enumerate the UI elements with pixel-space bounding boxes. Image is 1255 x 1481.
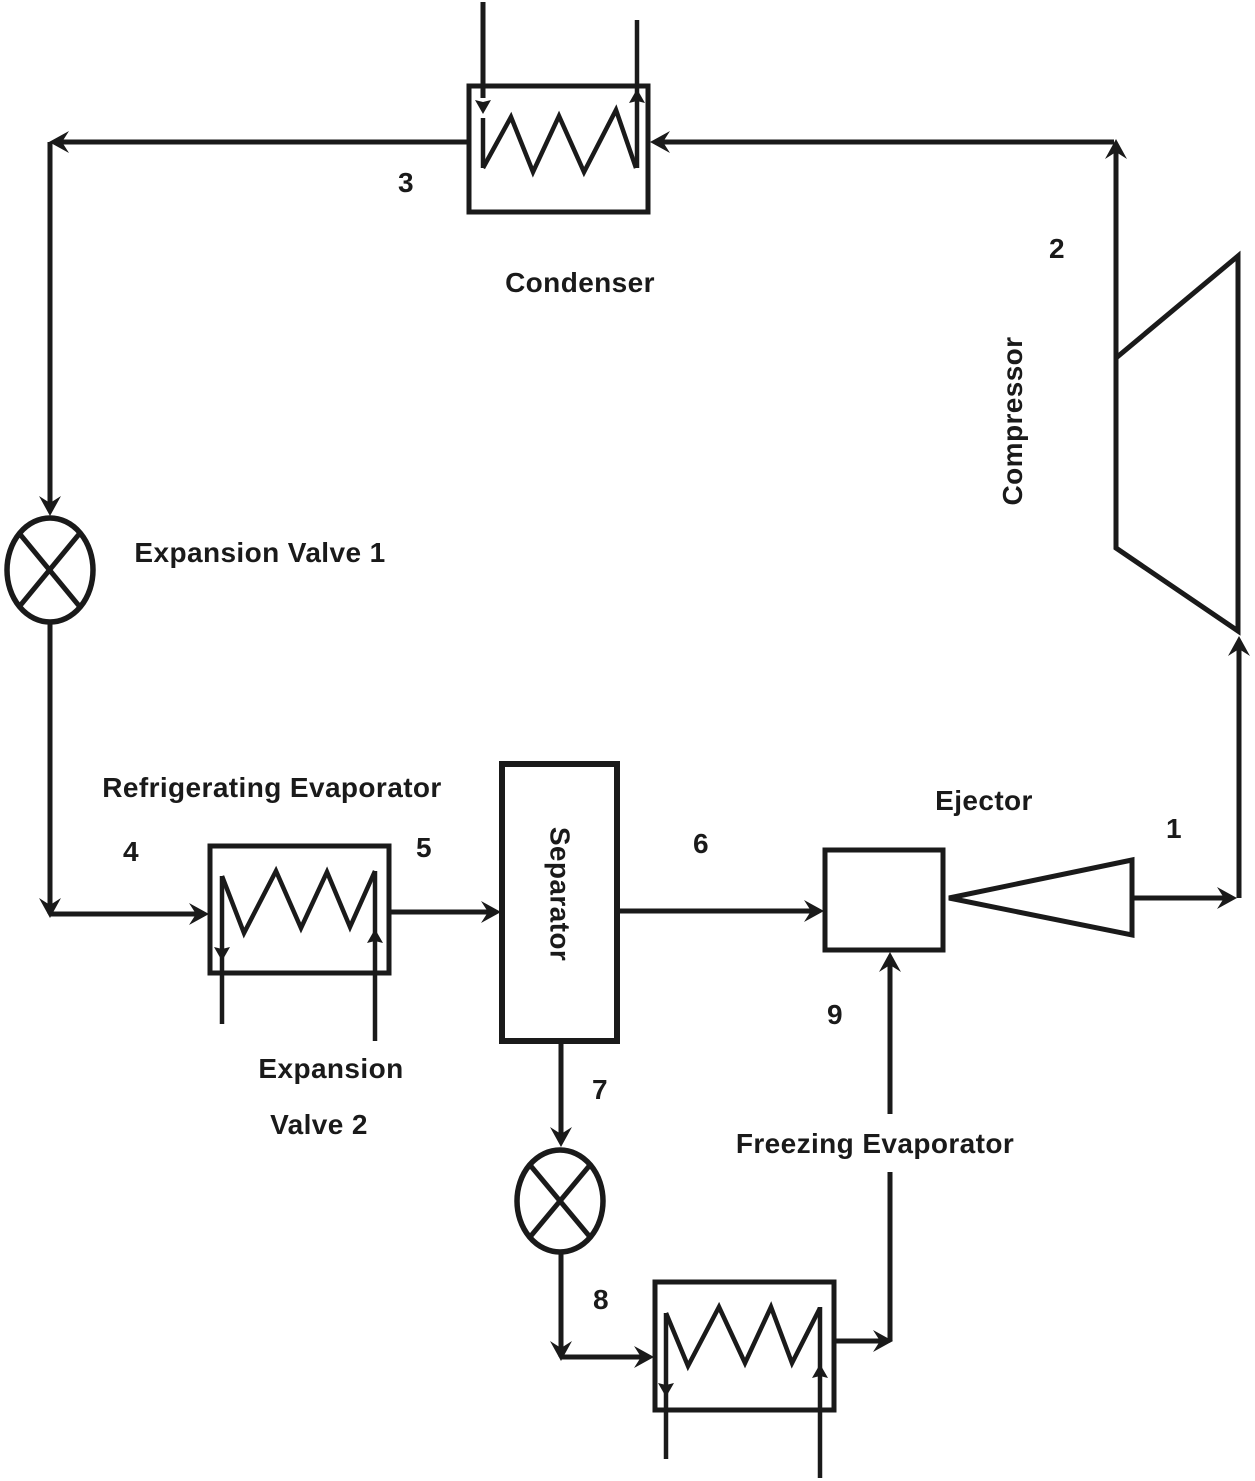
svg-text:Ejector: Ejector: [935, 785, 1033, 816]
refrigerating evaporator box: [210, 846, 389, 973]
wire rail up to ejector (lower segment): [888, 1172, 893, 1341]
svg-text:2: 2: [1049, 233, 1065, 264]
freezing evaporator coil: [666, 1307, 820, 1366]
wire nozzle to right rail: [1132, 896, 1230, 901]
svg-text:Separator: Separator: [545, 827, 576, 961]
wire freezing evaporator out: [834, 1339, 882, 1344]
svg-text:Valve 2: Valve 2: [270, 1109, 368, 1140]
svg-text:Compressor: Compressor: [997, 337, 1028, 506]
svg-text:4: 4: [123, 836, 139, 867]
condenser right tube: [635, 20, 640, 168]
expansion valve 1: [7, 518, 93, 622]
ejector box: [825, 850, 943, 950]
wire evaporator to separator: [389, 910, 494, 915]
svg-text:7: 7: [592, 1074, 608, 1105]
svg-text:1: 1: [1166, 813, 1182, 844]
svg-text:6: 6: [693, 828, 709, 859]
svg-text:Expansion: Expansion: [258, 1053, 403, 1084]
svg-text:5: 5: [416, 832, 432, 863]
wire top-right horizontal to condenser: [656, 140, 1114, 145]
wire to refrigerating evaporator: [50, 912, 202, 917]
svg-text:3: 3: [398, 167, 414, 198]
wire valve 2 down: [559, 1252, 564, 1357]
wire compressor discharge up: [1114, 145, 1119, 358]
refrigerating evaporator left tube: [220, 876, 225, 1024]
svg-text:Refrigerating Evaporator: Refrigerating Evaporator: [102, 772, 441, 803]
separator box: [502, 764, 617, 1041]
expansion valve 2: [517, 1150, 603, 1252]
svg-text:Freezing Evaporator: Freezing Evaporator: [736, 1128, 1014, 1159]
svg-text:Expansion Valve 1: Expansion Valve 1: [134, 537, 385, 568]
wire separator to ejector: [617, 909, 817, 914]
wire top-left horizontal (condenser to expansion valve 1 corner): [55, 140, 469, 145]
compressor trapezoid: [1116, 256, 1238, 631]
node corner arrow top-left: [49, 131, 69, 153]
wire separator bottom: [559, 1041, 564, 1140]
wire to freezing evaporator: [561, 1355, 647, 1360]
freezing evaporator left tube: [664, 1313, 669, 1459]
freezing evaporator box: [655, 1282, 834, 1410]
svg-text:9: 9: [827, 999, 843, 1030]
wire right rail up to compressor: [1237, 641, 1242, 898]
wire left vertical lower: [48, 622, 53, 914]
refrigerating evaporator right tube: [373, 871, 378, 1041]
refrigerating evaporator coil: [222, 871, 375, 933]
condenser box: [469, 86, 648, 212]
ejector nozzle triangle: [949, 860, 1132, 935]
wire rail up to ejector (upper segment): [888, 957, 893, 1114]
svg-text:Condenser: Condenser: [505, 267, 655, 298]
condenser left tube: [481, 2, 486, 98]
wire left vertical upper: [48, 142, 53, 510]
svg-text:8: 8: [593, 1284, 609, 1315]
condenser coil: [483, 110, 636, 172]
freezing evaporator right tube: [818, 1307, 823, 1478]
